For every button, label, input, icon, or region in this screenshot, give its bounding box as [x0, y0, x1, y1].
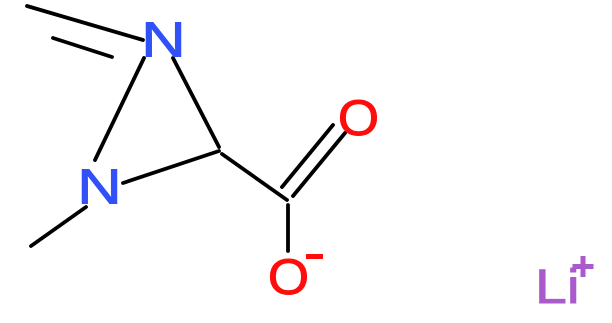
svg-text:N: N: [141, 11, 185, 67]
charge plus on Li: [573, 264, 594, 269]
bond CB=O1 main stroke: [293, 133, 345, 196]
bond N1-CH3: [31, 207, 86, 246]
bond C4=N3 inner stroke: [53, 38, 112, 57]
charge minus on O: [306, 254, 323, 259]
bond C2-CB: [222, 154, 287, 200]
bond C2-N1: [123, 151, 219, 183]
bond N3-N1: [95, 58, 144, 160]
bond CB=O1 inner stroke: [282, 125, 333, 187]
bond N3-C2: [173, 58, 219, 147]
svg-text:O: O: [338, 89, 379, 145]
bond C4=N3 main stroke: [27, 6, 143, 40]
svg-text:O: O: [268, 248, 309, 304]
bond CB-O2: [286, 205, 290, 251]
wire: [27, 6, 345, 251]
svg-text:N: N: [77, 158, 121, 214]
